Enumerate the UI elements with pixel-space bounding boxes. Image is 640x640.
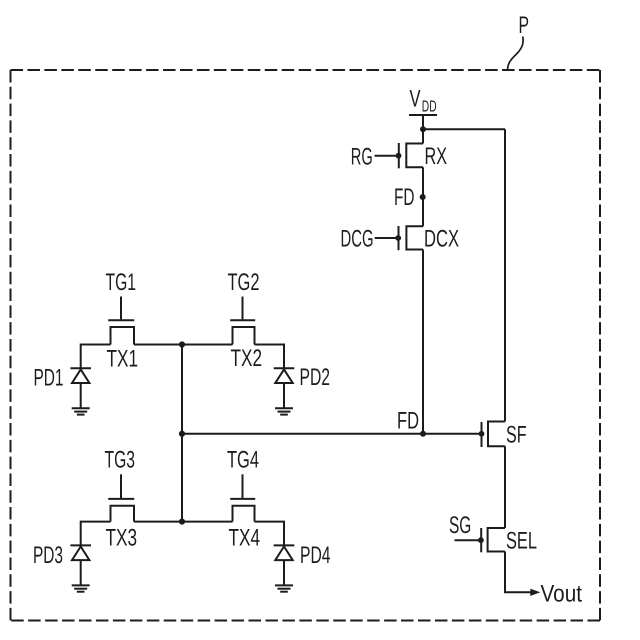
gate lead RG xyxy=(375,155,399,157)
svg-text:DCX: DCX xyxy=(424,226,459,253)
wire gate lead from TG3 xyxy=(120,474,122,498)
transistor TX3 xyxy=(108,499,134,522)
node junction TX3/TX4 xyxy=(179,519,185,525)
wire TX1 source to PD1 xyxy=(81,345,111,369)
ground at PD1 xyxy=(72,408,90,414)
wire shared column between TX pairs xyxy=(181,345,183,522)
ground at PD4 xyxy=(275,585,293,591)
photodiode PD1 xyxy=(70,368,91,383)
wire gate lead from TG1 xyxy=(120,297,122,320)
node junction FD bus left xyxy=(179,431,185,437)
node junction TX1/TX2 xyxy=(179,341,185,347)
node junction at VDD branch xyxy=(420,126,426,132)
wire PD3 anode to ground xyxy=(80,560,82,585)
transistor RX xyxy=(399,143,423,168)
enclosure P : dashed pixel boundary left side xyxy=(10,70,12,621)
ground at PD3 xyxy=(72,585,90,591)
arrow output Vout xyxy=(530,589,540,596)
svg-text:RG: RG xyxy=(351,144,373,171)
transistor DCX xyxy=(399,226,424,250)
wire SEL source to output xyxy=(505,552,532,593)
node FD upper xyxy=(420,194,426,200)
svg-text:TG3: TG3 xyxy=(105,446,136,473)
wire right column from VDD wire down to SF drain xyxy=(504,129,506,421)
wire PD2 anode to ground xyxy=(283,383,285,408)
wire PD4 anode to ground xyxy=(283,560,285,585)
ground at PD2 xyxy=(275,408,293,414)
wire TX4 source to PD4 xyxy=(255,522,285,546)
wire TX3 source to PD3 xyxy=(81,522,111,546)
svg-text:V: V xyxy=(410,86,421,113)
transistor SEL xyxy=(481,528,505,552)
wire SF source to SEL drain xyxy=(504,446,506,528)
svg-text:PD2: PD2 xyxy=(300,364,331,391)
svg-text:TX2: TX2 xyxy=(231,345,263,372)
enclosure P : dashed pixel boundary right side xyxy=(599,70,601,621)
junction dot at DCG gate xyxy=(395,235,401,241)
transistor TX2 xyxy=(230,320,255,344)
node junction DCX line with FD bus xyxy=(420,431,426,437)
wire TX3 drain to shared node xyxy=(134,521,182,523)
enclosure P : dashed pixel boundary bottom side xyxy=(11,620,601,622)
svg-text:TX3: TX3 xyxy=(106,525,138,552)
wire FD bus from shared column to SF gate xyxy=(182,433,482,435)
photodiode PD2 xyxy=(274,368,295,383)
svg-text:P: P xyxy=(519,12,530,39)
transistor TX1 xyxy=(108,320,134,344)
wire from VDD node to right column xyxy=(423,128,505,130)
leader line from label P to enclosure xyxy=(508,37,524,70)
svg-text:Vout: Vout xyxy=(541,581,583,608)
wire gate lead from TG4 xyxy=(242,474,244,498)
svg-text:FD: FD xyxy=(394,184,415,211)
junction dot at RG gate xyxy=(396,153,402,159)
transistor SF xyxy=(482,422,506,448)
transistor TX4 xyxy=(230,499,255,522)
svg-text:TG2: TG2 xyxy=(228,269,260,296)
svg-text:DCG: DCG xyxy=(341,226,374,253)
wire RX source to DCX drain (FD) xyxy=(422,167,424,226)
wire PD1 anode to ground xyxy=(80,383,82,408)
wire shared node to TX4 xyxy=(182,521,233,523)
wire TX1 drain to shared node xyxy=(134,344,182,346)
gate lead DCG xyxy=(375,237,399,239)
photodiode PD4 xyxy=(274,545,295,560)
svg-text:TX1: TX1 xyxy=(107,346,139,373)
svg-text:PD4: PD4 xyxy=(300,542,331,569)
svg-text:DD: DD xyxy=(422,99,437,116)
junction dot at SG gate xyxy=(478,537,484,543)
wire shared node to TX2 xyxy=(182,344,233,346)
svg-text:PD3: PD3 xyxy=(33,542,63,569)
photodiode PD3 xyxy=(70,545,91,560)
svg-text:FD: FD xyxy=(397,408,419,435)
enclosure P : dashed pixel boundary top side xyxy=(11,69,601,71)
svg-text:PD1: PD1 xyxy=(34,365,64,392)
wire DCX source down to FD bus xyxy=(422,250,424,434)
svg-text:SEL: SEL xyxy=(506,528,537,555)
junction dot at SF gate xyxy=(479,431,485,437)
svg-text:TG1: TG1 xyxy=(106,269,137,296)
svg-text:TX4: TX4 xyxy=(229,525,261,552)
svg-text:SG: SG xyxy=(449,512,471,539)
svg-text:TG4: TG4 xyxy=(227,446,259,473)
gate lead SG xyxy=(455,539,482,541)
wire VDD stem down to RX drain xyxy=(422,115,424,144)
svg-text:SF: SF xyxy=(506,422,527,449)
svg-text:RX: RX xyxy=(425,143,448,170)
wire TX2 source to PD2 xyxy=(255,345,285,369)
power VDD underline xyxy=(409,114,437,116)
wire gate lead from TG2 xyxy=(242,297,244,320)
